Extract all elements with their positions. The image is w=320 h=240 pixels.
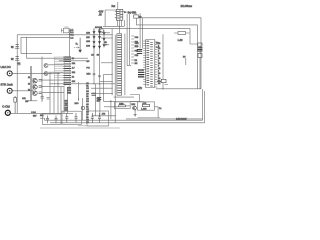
wire stub 62.8 (101, 62, 113, 64)
wire J1 (12, 72, 60, 74)
svg-text:1k: 1k (28, 77, 30, 79)
wire emitter down (134, 110, 136, 115)
resistor base Q2 (39, 86, 42, 87)
capacitor C13 (92, 93, 96, 95)
wire sp feed 3 (91, 87, 113, 89)
svg-text:MIC: MIC (87, 74, 91, 76)
IC1 pin ticks (117, 35, 121, 93)
wire stub x186 (185, 58, 187, 65)
capacitor C14 (97, 98, 101, 100)
wire left feed (105, 10, 117, 26)
svg-text:1S 188: 1S 188 (95, 27, 103, 29)
regulator U3 (115, 9, 123, 20)
transistor Q9 (81, 106, 84, 109)
wire reset top lead (117, 2, 119, 9)
transistor Q8 (44, 72, 48, 76)
wire bottom 1 (45, 119, 203, 121)
shield line (30, 66, 31, 101)
svg-text:3: 3 (158, 76, 159, 78)
wire h 115.8 (92, 115, 116, 117)
svg-text:L-208: L-208 (141, 109, 147, 111)
svg-text:1k: 1k (72, 77, 74, 79)
arrow into D5 (74, 47, 79, 49)
svg-text:22k: 22k (72, 72, 75, 74)
connector J1 (7, 71, 12, 76)
connector J3 (5, 110, 10, 115)
wire loop top (17, 34, 113, 36)
wire vertical drops from J1 wire (50, 73, 58, 113)
wire bottom 2 (50, 122, 205, 124)
wire lower right vertical 2 (204, 91, 206, 123)
wire sp feed 1 (103, 74, 112, 76)
wire R21 to bus (135, 12, 137, 25)
capacitor group box CG1 (62, 111, 82, 124)
wire J3 long (10, 112, 73, 114)
svg-text:8: 8 (158, 66, 159, 68)
wire right mid horizontal (156, 88, 201, 90)
wire IC1 rail 1 (111, 29, 113, 96)
svg-text:RL:: RL: (156, 43, 160, 45)
svg-text:LGA DC: LGA DC (1, 65, 11, 69)
wire IC1 right rail 2 (130, 14, 132, 66)
svg-text:MB30K: MB30K (176, 117, 187, 121)
wire bottom 3 (126, 118, 203, 120)
wire Q8 out (48, 71, 63, 73)
capacitor C20 (65, 113, 68, 122)
relay contact cluster K1 (198, 43, 203, 58)
svg-text:2SC: 2SC (75, 103, 79, 105)
svg-text:PH: PH (87, 68, 90, 70)
svg-text:Rst: Rst (112, 5, 116, 8)
diode D2 (15, 45, 19, 49)
wire Q collectors (42, 80, 64, 93)
wire bottom connect left (40, 118, 45, 120)
svg-text:4.7k: 4.7k (143, 103, 147, 105)
junction dots (41, 26, 163, 117)
diode D5 (79, 38, 82, 53)
wire fan 2 (104, 101, 140, 103)
transistor Q5 (99, 28, 110, 33)
box output A (114, 102, 130, 109)
component on J1 top (17, 63, 21, 66)
svg-text:5: 5 (158, 56, 159, 58)
wire loop third vertical (25, 37, 27, 58)
wire Q7 out (48, 64, 63, 66)
wire 47k vertical (162, 34, 164, 79)
array left lead comb (55, 57, 64, 80)
wire lower right vertical 1 (202, 89, 204, 120)
capacitor group box CG2 (87, 111, 109, 126)
resistor R17 (161, 79, 166, 82)
wire bottom 4 (78, 125, 109, 127)
wire under regulator (103, 20, 124, 33)
wire long vertical x115 (114, 88, 116, 123)
IC1 right pin ticks (131, 36, 134, 63)
crystal X2 (138, 70, 144, 77)
IC2 left pin ticks (143, 41, 145, 84)
capacitor C23 (98, 113, 101, 123)
transistor Q7 (44, 64, 48, 68)
wire R17 bottom (163, 83, 168, 89)
IC2 right pin ticks (155, 42, 158, 87)
svg-text:5: 5 (158, 71, 159, 73)
svg-text:4k: 4k (158, 83, 160, 85)
wire loop inner vertical (20, 37, 22, 53)
wire array feed 1 (26, 57, 88, 59)
wire fan vertical (110, 100, 112, 119)
svg-text:STR Jack: STR Jack (1, 82, 14, 86)
box output B (138, 102, 155, 110)
wire bus 1 (138, 18, 201, 89)
wire sp feed 2 (100, 80, 113, 82)
resistor R31 (142, 104, 149, 106)
resistor base Q3 (39, 92, 42, 93)
wire into box A (112, 105, 130, 108)
IC1 body (117, 34, 122, 96)
wire drops below array (54, 87, 67, 113)
svg-text:100k: 100k (119, 103, 123, 105)
wire sp feed vertical (102, 75, 104, 102)
capacitor C19 (55, 116, 58, 124)
svg-text:8: 8 (158, 51, 159, 53)
array left rail (54, 57, 56, 87)
resistor base Q1 (39, 80, 42, 81)
wire diode out (101, 37, 113, 39)
wire loop left vertical (16, 35, 18, 114)
capacitor ticks on tails (93, 74, 101, 77)
wire sp feed 4 (91, 92, 113, 94)
svg-text:1k: 1k (28, 90, 30, 92)
connector J2 (7, 88, 12, 93)
svg-text:L-10: L-10 (178, 40, 183, 42)
wire fan 1 (114, 96, 134, 98)
wire IC1 rail 2 (114, 35, 116, 95)
wire bus drops (96, 84, 100, 116)
crystal X1 (62, 27, 71, 33)
wire out of box B (155, 107, 159, 118)
svg-text:4.7k: 4.7k (137, 87, 142, 90)
svg-text:4.5V: 4.5V (99, 12, 104, 14)
wire J2 (12, 90, 33, 92)
wire base column (32, 78, 34, 95)
wire diode tails (94, 49, 100, 84)
capacitor C11 (137, 53, 142, 55)
wire IC1 right rail 1 (127, 14, 129, 66)
transistor Q2 (33, 85, 37, 89)
svg-text:C-OM: C-OM (2, 105, 10, 109)
diode D3 (15, 57, 19, 61)
capacitor group box CG0 (43, 114, 62, 125)
wire bottom-left stub (28, 100, 37, 102)
capacitor C18 (46, 116, 49, 124)
capacitor C22 (91, 113, 94, 123)
resistor R15 vertical (14, 96, 17, 113)
svg-text:Tx: Tx (159, 108, 161, 110)
resistor R30 (119, 105, 126, 107)
wire K1 stem (190, 44, 200, 54)
transistor Q3 (33, 91, 37, 95)
wire R22 leads (174, 32, 190, 34)
arrow to switch (123, 11, 125, 13)
wire K1 bottom drop (199, 58, 201, 89)
svg-text:10k: 10k (72, 81, 75, 83)
wire loop second (21, 36, 69, 38)
svg-text:Sw SW: Sw SW (128, 12, 137, 15)
svg-text:1k: 1k (72, 58, 74, 60)
wire IC1 rail 5 (124, 34, 126, 96)
svg-text:25V: 25V (97, 100, 101, 102)
svg-text:1W: 1W (25, 101, 28, 103)
diode chain D11 (99, 29, 101, 49)
IC2 body (146, 40, 155, 88)
wire bottom under boxes (40, 127, 120, 129)
wire Q9 vertical (81, 98, 83, 120)
ground GND1 (134, 115, 137, 117)
wire array feed 2 (59, 60, 88, 62)
wire bus 2 (136, 25, 197, 89)
diode chain D10 (93, 29, 95, 49)
wire center cross (51, 83, 116, 85)
diode chain D12 (103, 30, 105, 48)
wire vertical x42 (41, 57, 43, 103)
wire mid-left horizontal (21, 52, 52, 54)
wire vertical x69.4 (68, 29, 70, 57)
wire bus 3 (101, 29, 190, 44)
wire under output (138, 117, 161, 119)
resistor R21 (134, 15, 139, 18)
resistor R22 (178, 32, 186, 35)
resistor array RA1 (64, 57, 72, 85)
IC2 interior labels (146, 41, 149, 85)
capacitor C21 (75, 113, 78, 122)
wire switch lead (127, 11, 133, 13)
svg-text:22.05ms: 22.05ms (181, 4, 193, 8)
svg-text:4M: 4M (135, 63, 138, 65)
wire IC2 bottom wires (130, 95, 144, 102)
svg-text:2SC: 2SC (131, 104, 135, 106)
transistor Q10 (133, 106, 137, 110)
transistor Q1 (33, 79, 37, 83)
svg-text:1k: 1k (28, 83, 30, 85)
wire fan 3 (104, 106, 114, 108)
cap cluster lower left (41, 95, 50, 101)
wire x78.6 drop (78, 82, 80, 101)
net arrow left of IC1 (105, 44, 110, 46)
svg-text:R22: R22 (68, 92, 71, 94)
svg-text:10k: 10k (72, 63, 75, 65)
svg-text:3: 3 (158, 61, 159, 63)
capacitor C10 (137, 50, 142, 52)
svg-text:C 0.1: C 0.1 (31, 112, 36, 114)
wire feeds to IC2 top (140, 13, 143, 48)
